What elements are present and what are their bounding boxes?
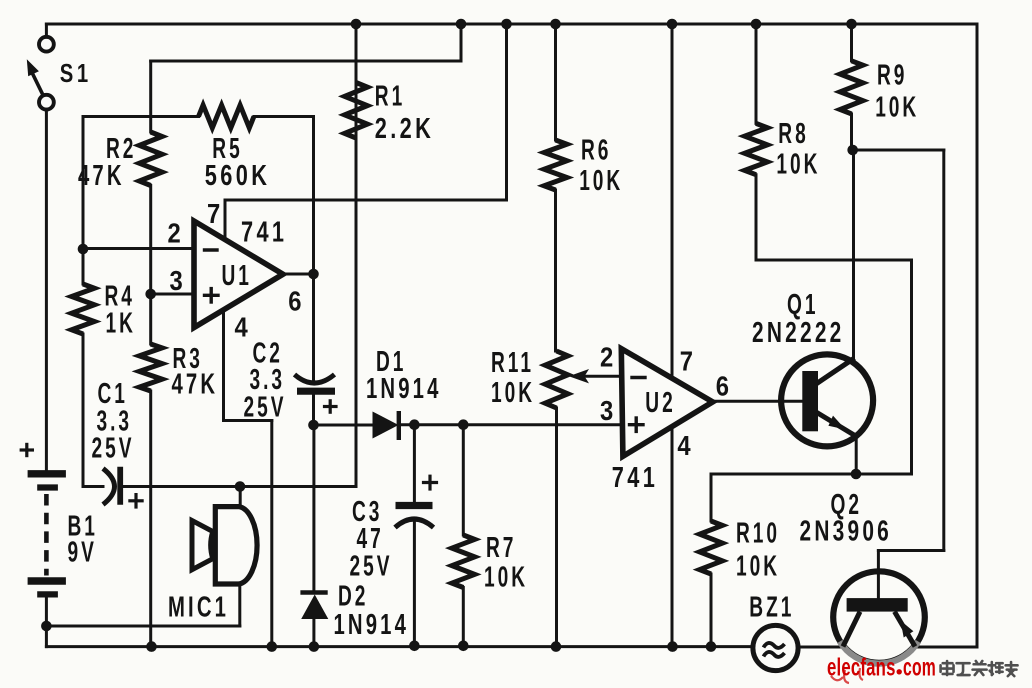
wire bottom ground rail (left of BZ1)	[46, 645, 751, 648]
wire C1 right to R1 riser	[124, 485, 357, 488]
wire U1 pin2 input	[83, 247, 194, 250]
switch S1 bottom contact	[39, 95, 54, 110]
svg-text:4: 4	[235, 311, 249, 343]
diode D2	[301, 595, 328, 620]
buzzer BZ1 circle	[753, 625, 798, 670]
svg-text:S1: S1	[60, 58, 92, 87]
svg-text:2N3906: 2N3906	[800, 515, 893, 547]
wire right-edge vertical (+V to Q2 emitter)	[976, 24, 979, 647]
watermark red script flourish	[831, 668, 863, 683]
svg-text:R9: R9	[877, 60, 907, 92]
resistor R2	[139, 132, 162, 186]
svg-text:2: 2	[600, 341, 613, 373]
junction ground rail R7	[458, 641, 469, 652]
op-amp U2 minus marker	[632, 376, 645, 379]
resistor R9	[840, 61, 863, 114]
wire Q1 emitter vertical	[855, 435, 858, 474]
wire bottom rail BZ1 to Q2	[800, 646, 844, 649]
svg-text:6: 6	[288, 285, 301, 317]
junction U1 pin2 node	[78, 244, 89, 255]
op-amp U2 triangle	[621, 349, 712, 457]
svg-text:25V: 25V	[92, 433, 135, 465]
transistor Q1 base bar	[802, 371, 818, 431]
wire second +V rail y61	[151, 60, 461, 63]
wire R11 wiper to U2 pin2	[585, 375, 621, 378]
junction ground rail x272	[267, 641, 278, 652]
capacitor C2 straight plate	[297, 388, 335, 395]
svg-text:R10: R10	[736, 518, 780, 550]
resistor R7	[452, 535, 475, 588]
junction top rail R8	[751, 19, 762, 30]
junction ground rail x151	[146, 641, 157, 652]
svg-text:10K: 10K	[491, 377, 535, 409]
wire feedback right vertical to U1 output	[312, 117, 315, 275]
wire U1 pin4 stub	[222, 309, 225, 421]
svg-text:47K: 47K	[78, 160, 125, 192]
wire R4 bottom to C1 wire	[82, 334, 85, 487]
wire S1 top stub	[45, 24, 48, 37]
svg-text:R6: R6	[581, 135, 611, 167]
resistor R5	[199, 105, 254, 128]
battery B1 plate short top	[37, 484, 58, 490]
wire R9 bottom to node	[850, 114, 853, 150]
switch S1 top contact	[39, 37, 54, 52]
wire D1 node to D2	[312, 425, 315, 591]
svg-text:R1: R1	[375, 81, 405, 113]
wire U1 pin4 jog	[224, 419, 272, 422]
wire pin3 node to R3	[149, 294, 152, 344]
buzzer BZ1 tilde symbol	[764, 643, 785, 648]
junction top rail x506	[501, 19, 512, 30]
battery B1 dashed cells	[44, 494, 49, 576]
capacitor C1 plus	[130, 499, 142, 502]
wire U1 output	[283, 273, 314, 276]
svg-text:R11: R11	[491, 347, 534, 379]
svg-text:3: 3	[600, 394, 613, 426]
junction R7 node	[458, 419, 469, 430]
battery B1 plate short bottom	[37, 591, 58, 597]
wire R8 jog vertical to emitter node	[910, 260, 913, 474]
wire MIC1 bottom lead	[238, 584, 241, 626]
junction battery/mic node	[41, 621, 52, 632]
svg-text:2: 2	[168, 217, 181, 249]
wire riser to top rail at x461	[460, 24, 463, 61]
wire R8 top	[755, 24, 758, 123]
svg-text:9V: 9V	[68, 537, 97, 569]
wire R7 bottom	[462, 588, 465, 646]
wire U2 pin7 to +V	[671, 24, 674, 379]
wire Q2 base stub	[877, 551, 880, 599]
battery B1 plate long bottom	[28, 577, 66, 584]
wire R3 to ground rail	[149, 391, 152, 647]
svg-text:7: 7	[207, 197, 220, 229]
capacitor C3 plus	[424, 481, 437, 484]
transistor Q1 emitter lead	[816, 412, 857, 437]
svg-text:2N2222: 2N2222	[752, 317, 845, 349]
wire R8 bottom	[755, 175, 758, 260]
junction R9/Q1 collector node	[847, 145, 858, 156]
svg-text:47K: 47K	[172, 368, 219, 400]
junction U1 pin3 node	[145, 289, 156, 300]
capacitor C1 straight plate	[117, 467, 123, 505]
junction top rail U2 pin7	[667, 19, 678, 30]
wire Q2-base link vertical	[942, 150, 945, 551]
wire R11 bottom to ground	[555, 408, 558, 647]
wire U2 output to Q1 base	[713, 400, 804, 403]
svg-text:3: 3	[170, 264, 183, 296]
svg-text:10K: 10K	[776, 149, 820, 181]
resistor R1	[345, 83, 368, 139]
junction ground rail R11	[551, 641, 562, 652]
wire R1 top stub	[355, 24, 358, 83]
wire mic ground run	[46, 625, 239, 628]
svg-text:1N914: 1N914	[334, 609, 410, 641]
resistor R8	[745, 123, 768, 174]
junction ground rail U2 pin4	[667, 641, 678, 652]
junction MIC1 tap	[235, 481, 246, 492]
diode D2 cathode bar	[300, 590, 327, 594]
transistor Q2 emitter arrow	[901, 621, 914, 638]
transistor Q2 collector lead	[843, 612, 860, 647]
resistor R4	[72, 284, 95, 334]
junction top rail R6	[550, 19, 561, 30]
wire feedback top-left segment	[83, 115, 199, 118]
svg-text:elecfans: elecfans	[827, 653, 896, 681]
wire R8 jog horizontal	[756, 259, 912, 262]
junction top rail R1	[351, 19, 362, 30]
wire U1 pin7 riser to +V	[505, 24, 508, 200]
transistor Q1 collector lead	[816, 358, 855, 384]
svg-text:com: com	[903, 654, 936, 682]
svg-text:25V: 25V	[244, 392, 287, 424]
svg-text:MIC1: MIC1	[168, 591, 229, 623]
op-amp U2 plus marker	[630, 423, 644, 426]
transistor Q2 circle gray bottom arc	[840, 642, 918, 664]
op-amp U1 plus marker	[205, 294, 219, 297]
svg-text:10K: 10K	[579, 165, 623, 197]
capacitor C3 straight plate	[396, 502, 433, 509]
resistor R6	[544, 140, 567, 190]
capacitor C2 plus	[325, 405, 337, 408]
junction ground rail R10	[706, 641, 717, 652]
wire D1 anode	[314, 424, 373, 427]
capacitor C2 curved plate	[295, 375, 335, 384]
wire R10 bottom	[710, 574, 713, 647]
wire U1 pin4 to ground	[270, 421, 273, 647]
wire R1 riser vertical	[355, 83, 358, 487]
transistor Q1 circle	[781, 354, 873, 446]
svg-text:25V: 25V	[350, 551, 393, 583]
svg-text:6: 6	[716, 369, 729, 401]
wire left rail battery to ground	[45, 598, 48, 647]
wire Q2-base link lower horizontal	[878, 549, 943, 552]
junction top rail x461	[456, 19, 467, 30]
junction C3 node	[409, 419, 420, 430]
wire C3 top	[413, 425, 416, 502]
wire Q1 collector vertical	[852, 150, 855, 361]
capacitor C1 curved plate	[103, 469, 115, 505]
junction ground rail C3	[409, 641, 420, 652]
wire D1 cathode run to U2 pin3	[399, 423, 621, 426]
wire R9 top	[850, 24, 853, 61]
wire D2 anode to ground	[312, 619, 315, 647]
transistor Q2 emitter lead	[895, 612, 916, 647]
switch S1 lever arrowhead	[27, 59, 39, 76]
wire Q1 emitter node run	[711, 473, 912, 476]
svg-text:10K: 10K	[875, 92, 919, 124]
svg-text:U2: U2	[645, 387, 675, 419]
wire R6 to R11	[554, 190, 557, 351]
wire R10 top corner	[710, 474, 713, 521]
wire U2 pin4 to ground	[671, 427, 674, 647]
wire pin2 node to R4	[82, 249, 85, 284]
svg-text:R7: R7	[486, 532, 516, 564]
svg-text:2.2K: 2.2K	[375, 113, 434, 145]
microphone MIC1 horn	[192, 521, 213, 570]
svg-text:7: 7	[680, 345, 693, 377]
svg-text:BZ1: BZ1	[749, 592, 794, 624]
wire R7 top	[462, 425, 465, 535]
wire MIC1 top lead	[239, 487, 242, 508]
resistor R3	[139, 344, 162, 391]
wire R2 top	[149, 61, 152, 132]
wire U1 pin3 input	[151, 293, 194, 296]
potentiometer R11	[545, 351, 568, 408]
op-amp U1 triangle	[194, 221, 283, 328]
svg-text:1K: 1K	[106, 308, 136, 340]
wire R6 top	[554, 24, 557, 140]
junction Q1 emitter node	[851, 469, 862, 480]
battery B1 plate long top	[28, 470, 66, 477]
watermark chinese characters 电子发烧友	[941, 661, 954, 675]
svg-text:560K: 560K	[205, 160, 270, 192]
wire C1 node horizontal	[83, 485, 103, 488]
resistor R10	[700, 521, 723, 574]
junction ground rail D2	[309, 641, 320, 652]
wire U1 pin7 stub	[224, 200, 227, 240]
svg-text:10K: 10K	[484, 562, 528, 594]
svg-text:R8: R8	[778, 118, 808, 150]
svg-text:D2: D2	[338, 581, 368, 613]
diode D1	[373, 412, 399, 439]
wire C3 bottom to ground	[413, 520, 416, 646]
switch S1 lever	[32, 72, 43, 94]
svg-text:741: 741	[241, 216, 287, 248]
op-amp U1 minus marker	[205, 248, 218, 251]
svg-text:10K: 10K	[736, 551, 780, 583]
transistor Q1 emitter arrow	[828, 416, 845, 430]
svg-text:4: 4	[677, 429, 691, 461]
wire R2 bottom to pin3 node	[149, 186, 152, 295]
wire U1 pin7 horizontal	[225, 199, 507, 202]
wire node to Q2-base link horizontal	[853, 149, 944, 152]
wire top +V rail	[46, 23, 977, 26]
wire feedback top-right segment	[254, 115, 314, 118]
transistor Q2 base bar	[847, 598, 908, 612]
wire U1 output to C2	[312, 274, 315, 383]
junction top rail R9	[846, 19, 857, 30]
wiper arrow R11	[569, 369, 589, 383]
wire C2 to D1 node	[312, 395, 315, 425]
transistor Q2 circle	[833, 571, 925, 663]
wire bottom rail Q2 emitter to right edge	[915, 646, 978, 649]
svg-text:741: 741	[612, 462, 658, 494]
microphone MIC1 capsule	[215, 507, 257, 584]
wire feedback left vertical upper	[82, 117, 85, 250]
battery B1 plus sign	[21, 448, 32, 451]
junction D1 anode node	[308, 420, 319, 431]
capacitor C3 curved plate	[395, 519, 434, 528]
svg-text:1N914: 1N914	[366, 372, 442, 404]
junction U1 output node	[308, 269, 319, 280]
svg-text:U1: U1	[222, 260, 252, 292]
wire left rail S1 to battery	[45, 109, 48, 470]
